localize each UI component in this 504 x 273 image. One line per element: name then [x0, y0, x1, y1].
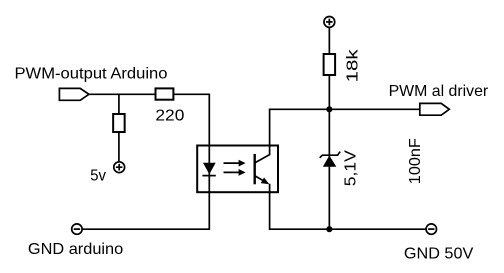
svg-text:5,1V: 5,1V: [343, 150, 360, 186]
svg-text:PWM-output Arduino: PWM-output Arduino: [15, 66, 168, 83]
svg-text:220: 220: [155, 107, 184, 124]
svg-text:GND arduino: GND arduino: [28, 241, 123, 258]
svg-text:GND 50V: GND 50V: [404, 245, 474, 262]
svg-text:100nF: 100nF: [407, 138, 424, 184]
svg-text:PWM al driver: PWM al driver: [389, 83, 489, 100]
svg-text:18k: 18k: [345, 48, 362, 82]
svg-text:5v: 5v: [90, 168, 106, 185]
